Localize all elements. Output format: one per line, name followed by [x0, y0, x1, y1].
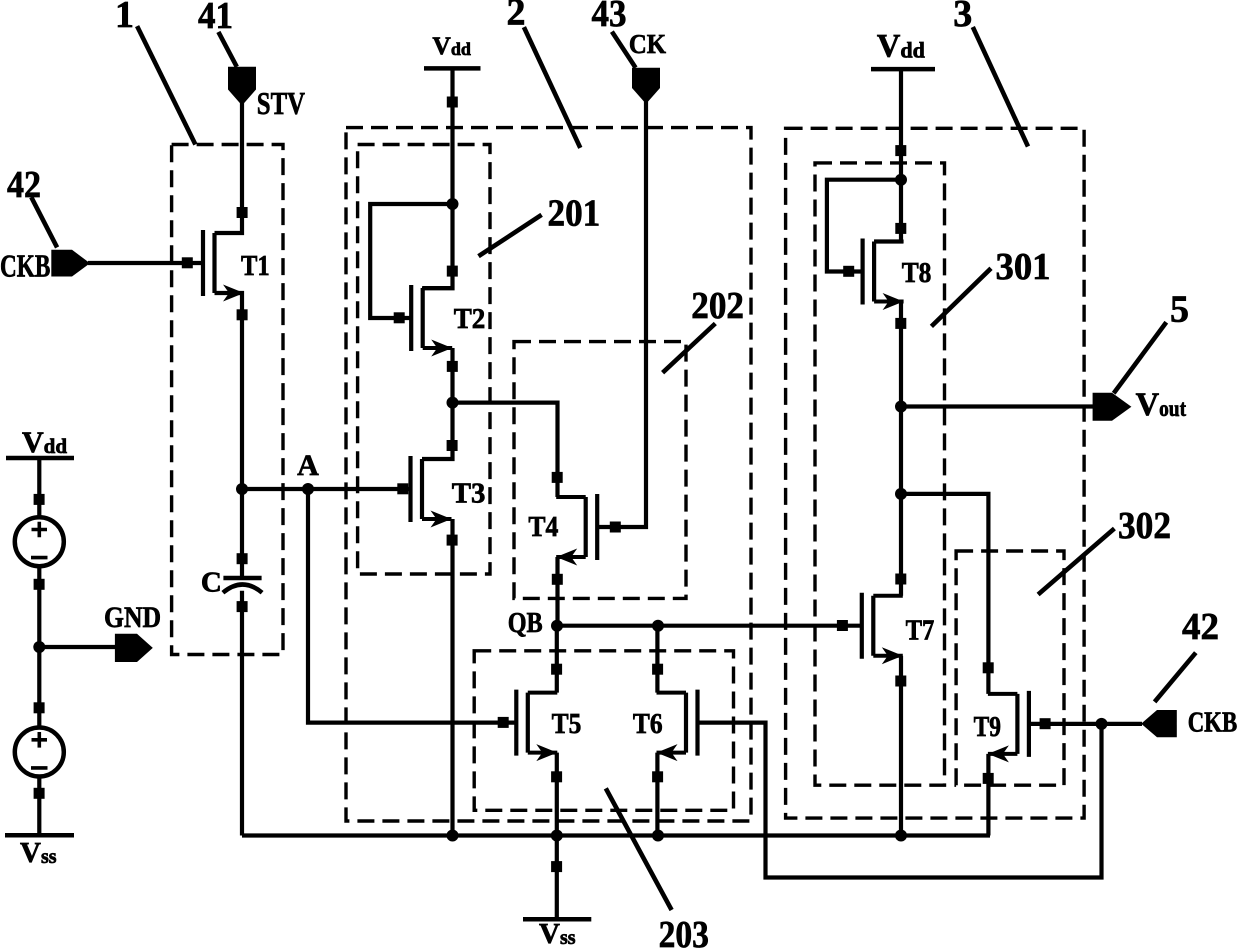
transistor T2 body — [421, 288, 425, 348]
terminal square above source V2 — [34, 702, 45, 713]
transistor T4 gate bar — [595, 494, 599, 560]
terminal square on T7 gate wire — [837, 620, 848, 631]
wire T1 source to node A — [215, 293, 243, 489]
svg-text:5: 5 — [1170, 288, 1189, 330]
transistor T5 source arrow — [536, 744, 557, 761]
wire junction to T4 drain — [453, 403, 558, 497]
terminal square on T2 gate — [394, 312, 405, 323]
svg-text:3: 3 — [953, 0, 972, 35]
transistor T9 source lead — [988, 752, 1018, 756]
block 201 dashed box — [358, 145, 490, 575]
wire GND node to source V2 — [37, 647, 41, 728]
terminal square above Vss (center) — [551, 861, 562, 872]
terminal square on T5 gate wire — [498, 717, 509, 728]
wire T6 source to bus — [655, 753, 659, 836]
terminal square under T1 — [237, 309, 248, 320]
svg-text:T5: T5 — [552, 708, 582, 740]
block 301 dashed box — [815, 163, 945, 785]
svg-text:T7: T7 — [906, 615, 935, 647]
transistor T9 source arrow — [988, 745, 1009, 762]
terminal square below Vdd bar (block 2) — [447, 97, 458, 108]
transistor T1 gate bar — [201, 230, 205, 296]
transistor T8 gate bar — [860, 239, 864, 305]
terminal square on T9 drain — [983, 662, 994, 673]
svg-text:T3: T3 — [452, 477, 486, 509]
block 2 dashed box — [346, 128, 751, 821]
wire CK to T4 gate — [599, 102, 647, 528]
junction T2 drain / gate feedback — [447, 198, 459, 210]
terminal square above capacitor C — [237, 553, 248, 564]
wire T2 source to T3 drain — [422, 348, 453, 459]
terminal square above T7 — [895, 574, 906, 585]
junction QB / T6 drain — [652, 620, 664, 632]
transistor T7 source lead — [873, 654, 903, 658]
transistor T3 body — [420, 459, 424, 519]
transistor T2 gate bar — [409, 285, 413, 351]
terminal square on left rail top — [34, 494, 45, 505]
wire Vdd to T8 drain — [874, 69, 901, 241]
voltage source V1 circle — [15, 517, 64, 566]
transistor T2 source lead — [423, 346, 453, 350]
transistor T5 body — [526, 693, 530, 753]
wire T9 source to bus — [986, 754, 990, 836]
node A junction — [302, 483, 314, 495]
block 3 dashed box — [786, 128, 1085, 818]
transistor T4 drain lead — [556, 495, 586, 499]
wire T4 source to node QB — [555, 557, 559, 626]
wire T9 gate to CKB arrow — [1029, 722, 1142, 726]
transistor T6 source lead — [657, 751, 687, 755]
transistor T2 source arrow — [431, 340, 452, 357]
T8 gate feedback wire — [827, 180, 901, 272]
leader line for 43 — [612, 32, 636, 68]
svg-text:A: A — [297, 449, 319, 482]
terminal square on T9 gate wire — [1040, 718, 1051, 729]
svg-text:1: 1 — [115, 0, 134, 36]
wire GND node to GND arrow — [39, 645, 116, 649]
transistor T7 source arrow — [882, 647, 903, 664]
svg-text:43: 43 — [592, 0, 627, 35]
svg-text:42: 42 — [7, 164, 41, 206]
junction T2 source / T4 drain — [447, 397, 459, 409]
wire source V2 to Vss bar — [37, 776, 41, 835]
wire T5 source to bus — [555, 753, 559, 836]
terminal square above T2 — [447, 266, 458, 277]
block 1 dashed box — [172, 145, 283, 655]
wire source V1 to GND node — [37, 566, 41, 647]
terminal square below T7 — [895, 676, 906, 687]
voltage source V2 circle — [15, 728, 64, 777]
leader line for 42 left — [31, 197, 57, 247]
transistor T9 body — [1015, 694, 1019, 754]
terminal square below Vdd bar (block 3) — [895, 145, 906, 156]
leader line for 203 — [606, 788, 672, 910]
transistor T1 source lead — [215, 291, 245, 295]
svg-text:T6: T6 — [633, 708, 663, 740]
GND terminal arrow — [115, 634, 153, 662]
terminal square on T1 gate wire — [182, 257, 193, 268]
wire junction to T9 drain — [901, 494, 988, 694]
transistor T7 gate bar — [860, 593, 864, 659]
leader line for 3 — [973, 27, 1028, 147]
svg-text:201: 201 — [548, 192, 601, 234]
svg-text:C: C — [201, 566, 222, 598]
terminal square below T9 — [983, 773, 994, 784]
terminal square below T6 — [652, 771, 663, 782]
CKB input terminal arrow 42 (left) — [51, 250, 90, 277]
T2 gate feedback wire — [370, 204, 452, 318]
capacitor C top plate — [223, 576, 261, 581]
transistor T3 source lead — [422, 517, 452, 521]
terminal square on T3 gate wire — [397, 483, 408, 494]
svg-text:301: 301 — [996, 246, 1051, 288]
block 202 dashed box — [514, 342, 686, 599]
junction T7 drain / T9 drain — [895, 488, 907, 500]
svg-text:CK: CK — [629, 29, 666, 59]
block 302 dashed box — [956, 551, 1064, 785]
transistor T6 source arrow — [657, 744, 678, 761]
Vdd bar (block 3) — [871, 67, 935, 72]
leader line for 41 — [218, 32, 236, 67]
transistor T9 drain lead — [988, 692, 1018, 696]
wire T8 source down through T7 to bus — [899, 302, 903, 596]
wire to Vout arrow — [901, 404, 1093, 408]
transistor T8 body — [872, 242, 876, 302]
svg-text:T9: T9 — [974, 711, 1001, 743]
transistor T8 drain lead — [874, 240, 904, 244]
svg-text:203: 203 — [659, 914, 709, 949]
voltage source V1 minus — [31, 556, 48, 560]
voltage source V2 minus — [31, 766, 48, 770]
transistor T3 source arrow — [431, 511, 452, 528]
terminal square below T4 — [552, 574, 563, 585]
CKB input terminal arrow 42 (right) — [1141, 710, 1177, 737]
transistor T3 gate bar — [408, 456, 412, 522]
svg-text:T1: T1 — [241, 250, 270, 282]
node GND junction — [33, 641, 45, 653]
transistor T7 drain lead — [873, 594, 903, 598]
wire QB to T6 drain — [655, 626, 659, 693]
wire bus to Vss bar — [555, 836, 559, 920]
STV input terminal arrow 41 — [228, 67, 256, 106]
terminal square on T4 gate wire — [610, 522, 621, 533]
bottom bus wire — [242, 833, 990, 837]
terminal square below capacitor C — [237, 601, 248, 612]
svg-text:GND: GND — [104, 601, 161, 634]
leader line for 2 — [524, 27, 580, 148]
voltage source V2 plus — [32, 732, 48, 748]
leader line for 42 right — [1155, 653, 1196, 702]
wire node A to capacitor C — [240, 489, 244, 578]
svg-text:T8: T8 — [902, 257, 932, 289]
transistor T1 source arrow — [223, 285, 244, 302]
node A wire to T3 gate — [242, 487, 411, 491]
transistor T4 source lead — [556, 555, 586, 559]
terminal square below T8 — [895, 318, 906, 329]
Vss rail bar (left) — [5, 833, 74, 838]
terminal square above T8 — [895, 223, 906, 234]
node junction on T1/C column — [236, 483, 248, 495]
Vdd rail bar (left) — [6, 456, 74, 461]
Vdd bar (block 2) — [424, 66, 481, 71]
terminal square above T6 — [652, 664, 663, 675]
transistor T4 source arrow — [556, 549, 577, 566]
transistor T1 body — [212, 233, 216, 293]
bus junction at T5 source — [551, 830, 563, 842]
node QB junction — [551, 620, 563, 632]
transistor T8 source arrow — [883, 293, 904, 310]
CK input terminal arrow 43 — [632, 68, 660, 104]
wire T6 gate to CKB (right loop) — [698, 723, 1102, 878]
wire CKB to T1 gate — [88, 261, 203, 265]
transistor T2 drain lead — [423, 286, 453, 290]
Vout output terminal arrow 5 — [1093, 393, 1132, 421]
svg-text:T4: T4 — [528, 511, 558, 543]
terminal square below T2 — [447, 361, 458, 372]
leader line for 202 — [663, 324, 716, 373]
wire capacitor C to bottom bus — [240, 591, 244, 836]
terminal square on T4 drain — [552, 472, 563, 483]
svg-text:302: 302 — [1118, 505, 1171, 547]
transistor T5 gate bar — [514, 690, 518, 756]
transistor T5 source lead — [528, 751, 558, 755]
svg-text:CKB: CKB — [0, 248, 50, 284]
wire T3 source to bus — [450, 519, 454, 836]
transistor T4 body — [584, 497, 588, 557]
terminal square under source V1 — [34, 579, 45, 590]
transistor T6 body — [684, 693, 688, 753]
leader line for 201 — [479, 215, 542, 256]
svg-text:QB: QB — [508, 607, 543, 639]
terminal square STV wire — [237, 207, 248, 218]
leader line for 5 — [1114, 322, 1167, 393]
wire node A down to T5 gate — [308, 489, 516, 723]
transistor T8 source lead — [874, 300, 904, 304]
node Vout junction — [895, 401, 907, 413]
wire T7 source to bus — [899, 656, 903, 836]
Vss bar (center) — [523, 917, 591, 922]
svg-text:CKB: CKB — [1188, 708, 1238, 739]
svg-text:T2: T2 — [454, 303, 486, 335]
transistor T5 drain lead — [528, 691, 558, 695]
bus junction at T6 source — [652, 830, 664, 842]
wire STV to T1 drain — [215, 103, 243, 233]
transistor T9 gate bar — [1027, 691, 1031, 757]
bus junction at T3 source — [447, 830, 459, 842]
wire Vdd to T2 drain — [422, 68, 453, 288]
wire QB to T5 drain — [555, 626, 559, 693]
svg-text:42: 42 — [1182, 606, 1219, 648]
terminal square on T8 gate — [843, 266, 854, 277]
block 203 dashed box — [474, 651, 733, 811]
junction T8 drain / gate feedback — [895, 174, 907, 186]
svg-text:STV: STV — [257, 85, 305, 121]
svg-text:41: 41 — [198, 0, 233, 37]
leader line for 301 — [931, 268, 991, 326]
transistor T3 drain lead — [422, 457, 452, 461]
bus junction at T7 source — [895, 830, 907, 842]
voltage source V1 plus — [32, 522, 48, 538]
terminal square above T3 — [447, 440, 458, 451]
terminal square below T3 — [447, 535, 458, 546]
node QB wire to T7 gate — [557, 624, 862, 628]
transistor T1 drain lead — [215, 231, 245, 235]
svg-text:202: 202 — [691, 285, 744, 327]
wire Vdd bar to source V1 — [37, 456, 41, 518]
terminal square above T5 — [551, 664, 562, 675]
capacitor C curved plate — [223, 585, 262, 593]
transistor T7 body — [871, 596, 875, 656]
terminal square above Vss bar — [34, 788, 45, 799]
transistor T6 gate bar — [695, 690, 699, 756]
junction CKB / T6 gate loop — [1096, 718, 1108, 730]
leader line for 1 — [137, 26, 195, 144]
leader line for 302 — [1038, 529, 1114, 595]
terminal square below T5 — [551, 771, 562, 782]
transistor T6 drain lead — [657, 691, 687, 695]
